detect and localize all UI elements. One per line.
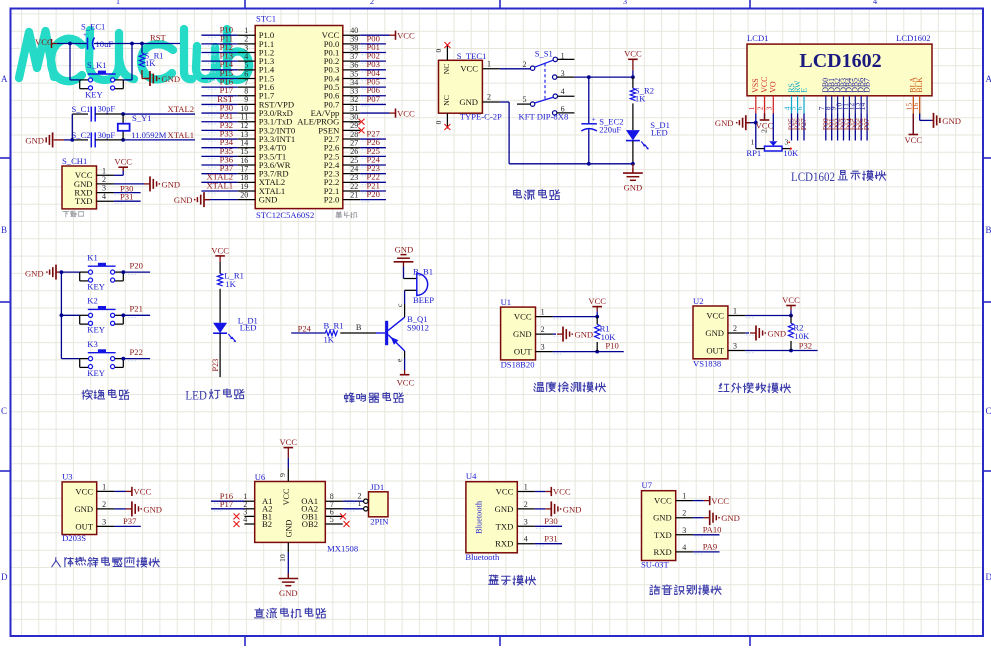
svg-text:RXD: RXD — [654, 547, 672, 557]
svg-text:P30: P30 — [544, 516, 557, 526]
svg-text:VCC: VCC — [588, 296, 606, 306]
svg-text:B: B — [1, 225, 7, 235]
svg-text:1: 1 — [541, 308, 545, 317]
svg-text:30: 30 — [350, 113, 358, 122]
svg-text:GND: GND — [143, 504, 162, 514]
svg-text:GND: GND — [162, 179, 181, 189]
svg-text:NC: NC — [442, 64, 451, 75]
svg-text:2: 2 — [760, 129, 769, 133]
svg-text:GND: GND — [575, 330, 594, 340]
svg-text:VCC: VCC — [397, 108, 415, 118]
svg-text:16: 16 — [240, 156, 248, 165]
svg-text:+: + — [83, 31, 87, 39]
svg-text:9: 9 — [278, 473, 287, 477]
svg-text:11: 11 — [240, 113, 248, 122]
svg-text:P07: P07 — [862, 118, 871, 130]
svg-text:1K: 1K — [635, 94, 646, 104]
svg-text:220uF: 220uF — [599, 124, 621, 134]
svg-text:KFT DIP-8X8: KFT DIP-8X8 — [519, 112, 569, 122]
svg-text:VCC: VCC — [553, 487, 571, 497]
svg-text:LED: LED — [651, 127, 668, 137]
svg-text:PA10: PA10 — [703, 525, 722, 535]
svg-text:4: 4 — [524, 535, 528, 544]
svg-text:14: 14 — [858, 102, 867, 110]
svg-text:C: C — [1, 406, 7, 416]
svg-text:LCD1602: LCD1602 — [799, 50, 881, 72]
svg-text:P20: P20 — [367, 189, 380, 199]
svg-text:VCC: VCC — [134, 487, 152, 497]
svg-text:B: B — [986, 225, 991, 235]
svg-text:1: 1 — [116, 0, 120, 6]
svg-text:+: + — [592, 114, 596, 123]
svg-text:P20: P20 — [130, 260, 143, 270]
svg-text:36: 36 — [350, 61, 358, 70]
svg-text:3: 3 — [102, 517, 106, 526]
svg-text:P37: P37 — [123, 516, 137, 526]
svg-text:1K: 1K — [145, 58, 156, 68]
svg-text:XTAL2: XTAL2 — [168, 104, 195, 114]
svg-text:GND: GND — [653, 513, 672, 523]
svg-text:10: 10 — [278, 554, 287, 562]
svg-text:5: 5 — [523, 95, 527, 104]
svg-text:12: 12 — [240, 121, 248, 130]
svg-text:5: 5 — [330, 515, 334, 524]
svg-text:25: 25 — [350, 156, 358, 165]
svg-text:7: 7 — [244, 78, 248, 87]
svg-text:GND: GND — [715, 118, 734, 128]
svg-text:2: 2 — [523, 60, 527, 69]
svg-text:6: 6 — [795, 106, 804, 110]
svg-text:B_B1: B_B1 — [413, 267, 433, 277]
svg-text:OB2: OB2 — [302, 519, 318, 529]
svg-text:KEY: KEY — [85, 89, 103, 99]
svg-text:VS1838: VS1838 — [693, 359, 721, 369]
svg-text:A: A — [1, 74, 8, 84]
svg-text:10: 10 — [240, 104, 248, 113]
svg-text:c: c — [395, 303, 404, 307]
svg-text:GND: GND — [624, 183, 643, 193]
svg-text:OUT: OUT — [514, 347, 532, 357]
svg-text:VCC: VCC — [711, 496, 729, 506]
svg-text:GND: GND — [174, 195, 193, 205]
svg-text:TXD: TXD — [654, 530, 672, 540]
svg-text:D: D — [1, 572, 8, 582]
svg-text:5: 5 — [244, 61, 248, 70]
svg-text:29: 29 — [350, 121, 358, 130]
svg-text:B2: B2 — [262, 519, 272, 529]
svg-text:28: 28 — [350, 130, 358, 139]
svg-text:STC12C5A60S2: STC12C5A60S2 — [256, 210, 314, 220]
svg-text:RXD: RXD — [495, 539, 513, 549]
svg-text:2: 2 — [756, 106, 765, 110]
svg-text:2: 2 — [541, 325, 545, 334]
svg-text:1: 1 — [524, 483, 528, 492]
svg-text:GND: GND — [942, 116, 961, 126]
svg-text:22: 22 — [350, 182, 358, 191]
svg-text:RP1: RP1 — [746, 148, 761, 158]
svg-text:2: 2 — [102, 175, 106, 184]
svg-text:14: 14 — [240, 139, 248, 148]
svg-text:GND: GND — [285, 520, 294, 538]
svg-text:0: 0 — [434, 120, 443, 124]
svg-text:DS18B20: DS18B20 — [501, 360, 535, 370]
svg-text:1: 1 — [487, 60, 491, 69]
svg-text:VCC: VCC — [35, 37, 53, 47]
svg-text:S_TEC1: S_TEC1 — [457, 51, 487, 61]
svg-text:13: 13 — [240, 130, 248, 139]
svg-text:BEEP: BEEP — [413, 295, 434, 305]
svg-text:VCC: VCC — [75, 486, 93, 496]
svg-text:1: 1 — [747, 106, 756, 110]
svg-text:GND: GND — [25, 135, 44, 145]
svg-text:3: 3 — [682, 526, 686, 535]
svg-text:JD1: JD1 — [370, 482, 384, 492]
svg-text:9: 9 — [244, 95, 248, 104]
svg-text:STC1: STC1 — [256, 14, 276, 24]
svg-text:8: 8 — [244, 87, 248, 96]
svg-text:23: 23 — [350, 173, 358, 182]
svg-text:VSS: VSS — [751, 78, 760, 92]
svg-text:38: 38 — [350, 43, 358, 52]
svg-text:VCC: VCC — [654, 496, 672, 506]
svg-text:GND: GND — [705, 328, 724, 338]
svg-text:RST: RST — [150, 32, 167, 42]
svg-text:S_K1: S_K1 — [87, 60, 107, 70]
svg-text:S_Y1: S_Y1 — [132, 113, 152, 123]
svg-text:K1: K1 — [87, 252, 98, 262]
svg-text:15: 15 — [240, 147, 248, 156]
svg-text:30pF: 30pF — [98, 103, 116, 113]
svg-text:31: 31 — [350, 104, 358, 113]
svg-text:1: 1 — [733, 307, 737, 316]
svg-text:3: 3 — [785, 138, 789, 147]
svg-text:VCC: VCC — [397, 30, 415, 40]
svg-text:1K: 1K — [225, 279, 236, 289]
svg-text:4: 4 — [243, 515, 247, 524]
svg-text:NC: NC — [442, 95, 451, 106]
svg-text:GND: GND — [279, 588, 298, 598]
svg-text:30pF: 30pF — [98, 130, 116, 140]
svg-text:OUT: OUT — [706, 345, 724, 355]
svg-text:2PIN: 2PIN — [370, 517, 389, 527]
svg-text:P31: P31 — [544, 533, 557, 543]
svg-text:S_C1: S_C1 — [72, 104, 91, 114]
svg-text:U7: U7 — [642, 480, 653, 490]
svg-text:PA9: PA9 — [703, 542, 718, 552]
svg-text:D203S: D203S — [62, 533, 86, 543]
svg-text:P32: P32 — [799, 340, 812, 350]
svg-text:VCC: VCC — [760, 77, 769, 93]
svg-text:VO: VO — [769, 81, 778, 93]
svg-text:GND: GND — [563, 504, 582, 514]
svg-text:19: 19 — [240, 182, 248, 191]
svg-text:KEY: KEY — [87, 282, 105, 292]
svg-text:1: 1 — [682, 492, 686, 501]
svg-text:GND: GND — [768, 328, 787, 338]
svg-text:A: A — [986, 74, 991, 84]
svg-text:4: 4 — [102, 192, 106, 201]
svg-text:24: 24 — [350, 164, 358, 173]
svg-text:S_EC1: S_EC1 — [81, 22, 105, 32]
svg-text:Bluetooth: Bluetooth — [475, 500, 484, 534]
svg-text:GND: GND — [25, 268, 44, 278]
svg-text:S_CH1: S_CH1 — [62, 156, 87, 166]
svg-text:1K: 1K — [324, 334, 335, 344]
svg-text:TYPE-C-2P: TYPE-C-2P — [460, 112, 502, 122]
svg-text:VCC: VCC — [782, 295, 800, 305]
svg-text:S_C2: S_C2 — [72, 130, 91, 140]
svg-text:VCC: VCC — [514, 312, 532, 322]
svg-text:4: 4 — [682, 543, 686, 552]
svg-text:P22: P22 — [130, 347, 143, 357]
svg-text:LED: LED — [185, 388, 207, 402]
svg-text:3: 3 — [623, 0, 627, 6]
svg-text:LCD1: LCD1 — [747, 33, 768, 43]
svg-text:B: B — [356, 323, 362, 332]
svg-text:P21: P21 — [130, 304, 143, 314]
svg-text:VCC: VCC — [279, 437, 297, 447]
svg-text:16: 16 — [911, 102, 920, 110]
svg-text:GND: GND — [74, 504, 93, 514]
svg-text:VCC: VCC — [460, 64, 478, 74]
svg-text:35: 35 — [350, 69, 358, 78]
svg-text:VCC: VCC — [706, 310, 724, 320]
svg-text:B_R1: B_R1 — [324, 320, 344, 330]
svg-text:6: 6 — [244, 69, 248, 78]
svg-text:4: 4 — [873, 0, 878, 6]
svg-text:3: 3 — [541, 343, 545, 352]
svg-text:2: 2 — [487, 93, 491, 102]
svg-text:GND: GND — [495, 504, 514, 514]
svg-text:C: C — [986, 406, 991, 416]
svg-text:P07: P07 — [367, 94, 381, 104]
svg-text:OUT: OUT — [75, 521, 93, 531]
svg-text:XTAL1: XTAL1 — [206, 180, 233, 190]
svg-text:3: 3 — [733, 342, 737, 351]
svg-text:4: 4 — [561, 87, 565, 96]
svg-text:P31: P31 — [120, 192, 133, 202]
svg-text:18: 18 — [240, 173, 248, 182]
svg-text:P23: P23 — [211, 359, 220, 372]
svg-text:BLK: BLK — [915, 77, 924, 93]
svg-text:2: 2 — [370, 0, 374, 6]
svg-text:11.0592M: 11.0592M — [131, 130, 167, 140]
svg-text:20: 20 — [240, 190, 248, 199]
svg-text:10K: 10K — [783, 148, 799, 158]
svg-text:VCC: VCC — [624, 49, 642, 59]
svg-text:GND: GND — [459, 97, 478, 107]
svg-text:P27: P27 — [799, 118, 808, 130]
svg-text:DB7: DB7 — [862, 78, 871, 93]
svg-text:40: 40 — [350, 26, 358, 35]
svg-text:VCC: VCC — [904, 135, 922, 145]
svg-text:MX1508: MX1508 — [327, 543, 358, 553]
svg-text:1: 1 — [244, 26, 248, 35]
svg-text:17: 17 — [240, 164, 248, 173]
svg-text:26: 26 — [350, 147, 358, 156]
svg-text:VCC: VCC — [397, 377, 415, 387]
svg-text:e: e — [395, 358, 404, 362]
svg-text:S9012: S9012 — [407, 323, 429, 333]
svg-text:P2.0: P2.0 — [324, 195, 340, 205]
svg-text:1: 1 — [358, 499, 362, 508]
svg-text:32: 32 — [350, 95, 358, 104]
svg-text:P17: P17 — [220, 499, 234, 509]
svg-text:SU-03T: SU-03T — [641, 560, 669, 570]
svg-text:0: 0 — [434, 48, 443, 52]
svg-text:TXD: TXD — [496, 521, 514, 531]
svg-text:1: 1 — [102, 482, 106, 491]
svg-text:33: 33 — [350, 87, 358, 96]
svg-text:LED: LED — [240, 323, 257, 333]
svg-text:K3: K3 — [87, 339, 98, 349]
svg-text:GND: GND — [513, 329, 532, 339]
svg-text:2: 2 — [682, 509, 686, 518]
svg-text:LCD1602: LCD1602 — [896, 33, 930, 43]
svg-text:21: 21 — [350, 190, 358, 199]
svg-text:S_S1: S_S1 — [535, 49, 553, 59]
svg-text:U3: U3 — [62, 472, 73, 482]
svg-text:GND: GND — [721, 513, 740, 523]
svg-text:U1: U1 — [501, 297, 512, 307]
svg-text:GND: GND — [259, 195, 278, 205]
svg-text:3: 3 — [244, 43, 248, 52]
svg-text:VCC: VCC — [211, 245, 229, 255]
svg-text:2: 2 — [733, 324, 737, 333]
svg-text:2: 2 — [102, 500, 106, 509]
svg-text:2: 2 — [244, 35, 248, 44]
svg-text:KEY: KEY — [87, 325, 105, 335]
svg-text:3: 3 — [764, 106, 773, 110]
svg-text:KEY: KEY — [87, 368, 105, 378]
svg-text:LCD1602: LCD1602 — [791, 170, 835, 184]
svg-text:Bluetooth: Bluetooth — [465, 552, 500, 562]
svg-text:GND: GND — [395, 244, 414, 254]
svg-text:27: 27 — [350, 139, 358, 148]
svg-text:34: 34 — [350, 78, 358, 87]
svg-text:U2: U2 — [693, 296, 704, 306]
svg-text:39: 39 — [350, 35, 358, 44]
svg-text:4: 4 — [244, 52, 248, 61]
svg-text:P10: P10 — [605, 341, 618, 351]
svg-text:U6: U6 — [255, 472, 266, 482]
svg-text:VCC: VCC — [496, 487, 514, 497]
svg-text:VCC: VCC — [282, 488, 291, 505]
svg-text:U4: U4 — [466, 471, 477, 481]
svg-text:3: 3 — [524, 517, 528, 526]
svg-text:XTAL1: XTAL1 — [168, 130, 195, 140]
svg-text:GND: GND — [162, 74, 181, 84]
svg-text:VCC: VCC — [114, 157, 132, 167]
svg-text:37: 37 — [350, 52, 358, 61]
svg-text:E: E — [799, 88, 808, 93]
svg-text:TXD: TXD — [75, 196, 93, 206]
svg-text:P24: P24 — [298, 324, 312, 334]
svg-text:1: 1 — [751, 138, 755, 147]
svg-text:D: D — [986, 572, 991, 582]
svg-text:K2: K2 — [87, 296, 98, 306]
svg-text:2: 2 — [524, 500, 528, 509]
